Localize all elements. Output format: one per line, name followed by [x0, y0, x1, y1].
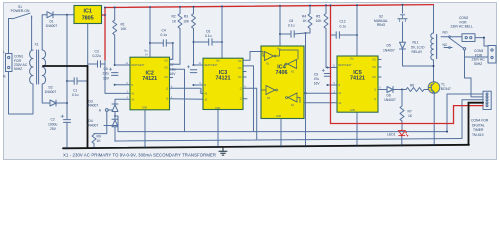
svg-text:R4: R4: [302, 15, 306, 19]
node junctions on +5V rail: [104, 4, 404, 16]
svg-text:5V, 1C/O: 5V, 1C/O: [411, 45, 425, 49]
wire: [31, 16, 33, 50]
resistor R2: [170, 7, 182, 64]
wire: [475, 38, 488, 46]
capacitor C3: [88, 61, 105, 67]
wire: [42, 15, 46, 50]
wire: [305, 33, 307, 93]
wire: [56, 102, 67, 104]
svg-text:C12: C12: [340, 20, 346, 24]
switch S2: [398, 5, 407, 42]
wire busB to CON4: [462, 100, 483, 139]
svg-text:Q: Q: [240, 88, 242, 90]
svg-text:C5: C5: [104, 67, 108, 71]
wire: [114, 112, 116, 120]
svg-text:C4: C4: [162, 29, 166, 33]
svg-text:DIGITAL: DIGITAL: [472, 123, 485, 127]
diode D6: [387, 87, 406, 93]
svg-text:R1: R1: [121, 22, 125, 26]
svg-text:C1: C1: [73, 89, 77, 93]
wire B input: [105, 60, 130, 94]
wire IC3 Qbar stub: [243, 98, 247, 100]
svg-text:0.1u: 0.1u: [72, 93, 79, 97]
svg-text:NC: NC: [238, 61, 242, 63]
svg-text:50HZ: 50HZ: [14, 67, 22, 71]
svg-text:10K: 10K: [183, 19, 190, 23]
wire A2 to D3: [115, 99, 130, 103]
transformer X1: [30, 50, 46, 84]
svg-text:X1: X1: [35, 43, 39, 47]
capacitor C7: [187, 64, 203, 86]
wire IC5 Vcc: [356, 5, 358, 56]
capacitor C5: [109, 64, 130, 86]
inverter gate N3: [266, 86, 275, 95]
relay contact NO: [441, 36, 462, 38]
wire IC2 pin drop to bus: [170, 69, 185, 131]
svg-text:NC: NC: [373, 60, 377, 62]
node: [401, 89, 403, 91]
wire IC2 Q to IC3: [170, 88, 204, 93]
svg-text:47u: 47u: [314, 77, 320, 81]
IC4 7406: [261, 46, 304, 119]
diode D3: [112, 104, 118, 112]
wire: [66, 15, 68, 103]
node junctions on ground rail: [66, 144, 435, 149]
wire IC5 gnd: [356, 112, 358, 146]
svg-text:10K: 10K: [121, 27, 128, 31]
svg-text:1N4007: 1N4007: [46, 24, 58, 28]
resistor R3: [192, 7, 196, 65]
svg-text:16V: 16V: [103, 76, 110, 80]
svg-text:REXT/CEXT: REXT/CEXT: [205, 65, 218, 67]
wire: [305, 93, 307, 146]
svg-text:7406: 7406: [276, 70, 288, 76]
svg-text:74121: 74121: [350, 76, 365, 82]
IC5 74121: [333, 56, 382, 112]
wire pole riser to CON4 pin2: [471, 78, 483, 97]
wire busA tie: [115, 116, 118, 132]
svg-text:LED1: LED1: [387, 133, 396, 137]
svg-text:NC: NC: [373, 67, 377, 69]
svg-text:GND: GND: [142, 107, 147, 109]
wire: [53, 14, 74, 16]
wire IC2 gnd: [144, 110, 146, 148]
svg-text:Q: Q: [166, 88, 168, 90]
inverter gate N1: [265, 52, 274, 61]
wire IC3 pin drop to bus: [243, 66, 254, 132]
svg-text:R5: R5: [316, 14, 320, 18]
wire gates to IC5: [306, 92, 338, 94]
svg-text:X1 - 230V AC PRIMARY TO 9V-0-9: X1 - 230V AC PRIMARY TO 9V-0-9V, 300mA S…: [63, 153, 216, 158]
svg-text:GND: GND: [215, 108, 220, 110]
svg-text:NC: NC: [373, 77, 377, 79]
wire busA to CON4: [447, 94, 483, 132]
svg-text:0.1u: 0.1u: [288, 24, 295, 28]
black 0V rail: [43, 66, 483, 148]
wire emitter: [433, 93, 435, 145]
svg-text:7805: 7805: [82, 16, 94, 22]
inverter gate N4: [288, 93, 297, 102]
node: [66, 14, 68, 16]
svg-text:C6: C6: [206, 29, 210, 33]
svg-text:R3: R3: [184, 15, 188, 19]
svg-text:1N4007: 1N4007: [384, 98, 396, 102]
svg-text:RING: RING: [377, 23, 386, 27]
svg-text:RL1: RL1: [413, 41, 419, 45]
svg-text:D6: D6: [387, 94, 391, 98]
svg-text:R2: R2: [172, 15, 176, 19]
diode D2: [50, 100, 56, 106]
svg-text:NC: NC: [238, 77, 242, 79]
svg-text:TM-619: TM-619: [472, 133, 484, 137]
IC5 NC pin stubs: [378, 60, 381, 78]
diode D5: [400, 42, 406, 49]
relay contact circles: [449, 36, 451, 38]
wire IC4 gnd: [280, 119, 282, 146]
wire IC1 gnd stub: [87, 24, 89, 67]
resistor R5: [324, 5, 328, 67]
capacitor C6: [193, 39, 224, 45]
svg-text:10K: 10K: [316, 19, 323, 23]
capacitor C8: [279, 31, 307, 37]
relay core bar: [436, 35, 438, 59]
svg-text:0.1u: 0.1u: [340, 24, 347, 28]
svg-text:D4: D4: [89, 119, 93, 123]
node A terminal: [105, 109, 115, 112]
svg-text:NC: NC: [165, 61, 169, 63]
svg-text:C8: C8: [289, 19, 293, 23]
wire pole to CON3: [465, 56, 489, 58]
wire: [9, 72, 34, 115]
connector CON1: [6, 54, 13, 72]
svg-text:0.1u: 0.1u: [161, 33, 168, 37]
svg-text:50HZ: 50HZ: [474, 62, 482, 66]
wire IC3 to IC4 N1: [243, 52, 261, 61]
wire IC3 Vcc: [221, 6, 223, 58]
relay contact NC: [444, 47, 452, 49]
svg-text:NC: NC: [165, 68, 169, 70]
wire IC3 Q routing: [243, 88, 257, 139]
wire: [403, 49, 434, 66]
svg-text:16V: 16V: [170, 72, 177, 76]
svg-text:POWER-ON: POWER-ON: [11, 9, 30, 13]
svg-text:CON4 FOR: CON4 FOR: [471, 119, 489, 123]
connector CON3: [488, 46, 496, 64]
capacitor C2: [61, 103, 71, 148]
ground: [219, 147, 227, 155]
svg-text:25V: 25V: [50, 127, 57, 131]
resistor R9: [92, 134, 96, 148]
svg-text:T1: T1: [441, 83, 445, 87]
svg-text:2.2u: 2.2u: [169, 68, 176, 72]
svg-text:IC1: IC1: [84, 9, 92, 15]
svg-text:D5: D5: [387, 43, 391, 47]
switch S1: [9, 13, 32, 19]
resistor R1: [113, 7, 117, 65]
svg-text:0.1u: 0.1u: [205, 34, 212, 38]
svg-text:230V AC BELL: 230V AC BELL: [451, 25, 473, 29]
inverter gate N2: [288, 60, 297, 69]
svg-text:1N4007: 1N4007: [383, 48, 395, 52]
capacitor C9: [322, 67, 337, 87]
IC3 74121: [199, 58, 247, 110]
svg-text:RELAY: RELAY: [412, 50, 423, 54]
svg-text:Q: Q: [240, 99, 242, 101]
svg-text:1N4007: 1N4007: [87, 123, 99, 127]
wire IC2 Qbar to IC3: [170, 98, 204, 101]
wire: [42, 84, 49, 103]
svg-text:16V: 16V: [314, 82, 321, 86]
svg-text:C3: C3: [95, 50, 99, 54]
wire node A short link: [104, 125, 118, 127]
svg-text:L: L: [3, 50, 5, 54]
wire IC2 Vcc: [149, 7, 151, 57]
wire IC3 gnd: [217, 110, 219, 148]
svg-text:NC: NC: [238, 68, 242, 70]
wire IC4 Vcc: [279, 6, 281, 46]
svg-text:Q: Q: [374, 99, 376, 101]
connector CON4: [483, 91, 491, 109]
svg-text:74121: 74121: [142, 76, 157, 82]
svg-text:REXT/CEXT: REXT/CEXT: [339, 65, 352, 67]
svg-text:C9: C9: [314, 73, 318, 77]
relay coil RL1: [431, 5, 434, 82]
wire IC5 Q out: [378, 89, 387, 91]
svg-text:NO: NO: [443, 31, 448, 35]
relay armature: [449, 38, 466, 57]
svg-text:R6: R6: [410, 83, 414, 87]
red +5V rail: [102, 5, 484, 124]
svg-text:BC547: BC547: [441, 87, 451, 91]
svg-text:GND: GND: [350, 110, 355, 112]
wire: [8, 19, 10, 54]
svg-text:NC: NC: [443, 43, 448, 47]
capacitor C12: [331, 32, 359, 38]
svg-text:NC: NC: [165, 77, 169, 79]
diode D1: [47, 12, 53, 18]
node: [66, 102, 68, 104]
svg-text:R7: R7: [408, 109, 412, 113]
svg-text:74121: 74121: [216, 76, 231, 82]
IC3 NC pin stubs: [243, 72, 246, 78]
transistor T1: [428, 82, 440, 94]
svg-text:C7: C7: [170, 63, 174, 67]
IC2 NC pin stubs: [170, 59, 173, 77]
svg-text:1000u: 1000u: [48, 122, 57, 126]
node: [114, 115, 116, 117]
svg-text:0.22u: 0.22u: [93, 54, 102, 58]
svg-text:R9: R9: [97, 135, 101, 139]
diode D4: [112, 119, 118, 126]
connector CON2: [462, 34, 475, 42]
svg-text:TIMER: TIMER: [473, 128, 484, 132]
svg-text:Q: Q: [374, 90, 376, 92]
svg-text:C2: C2: [51, 118, 55, 122]
IC1 7805: [74, 6, 102, 24]
wire: [114, 127, 116, 141]
LED1: [398, 130, 408, 137]
capacitor C1: [66, 78, 88, 84]
svg-text:Q: Q: [166, 99, 168, 101]
wire: [401, 137, 403, 146]
svg-text:GND: GND: [276, 116, 281, 118]
svg-text:1N4007: 1N4007: [87, 104, 99, 108]
node: [433, 65, 435, 67]
IC2 74121: [126, 51, 174, 110]
svg-text:2.2u: 2.2u: [103, 72, 110, 76]
bus A: [118, 131, 447, 133]
resistor R7: [400, 90, 404, 130]
svg-text:REXT/CEXT: REXT/CEXT: [132, 65, 145, 67]
resistor R4: [306, 6, 313, 34]
resistor R6: [406, 88, 429, 92]
wire: [94, 111, 107, 133]
capacitor C4: [149, 40, 174, 60]
bus B: [115, 139, 462, 142]
wire: [304, 102, 337, 104]
svg-text:1N4007: 1N4007: [45, 90, 57, 94]
